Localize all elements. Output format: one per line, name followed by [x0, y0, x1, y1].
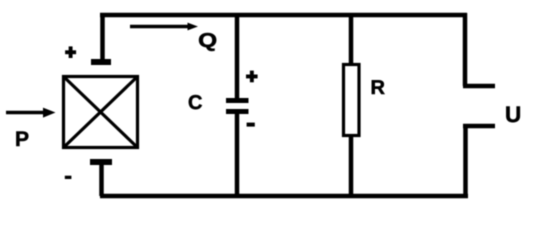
- label + source positive: [65, 46, 76, 58]
- wire bottom horizontal: [100, 194, 468, 199]
- label + capacitor positive: [246, 71, 258, 83]
- svg-text:P: P: [15, 128, 29, 151]
- terminal top of output U: [463, 84, 495, 89]
- terminal bottom of output U: [463, 124, 495, 129]
- capacitor C plates: [226, 101, 249, 112]
- wire right top vertical: [463, 13, 468, 86]
- source X1 crossed-box transducer: [64, 77, 138, 148]
- terminal bar bottom of source: [90, 159, 112, 165]
- label U: [505, 102, 521, 127]
- resistor R body: [344, 65, 360, 136]
- svg-text:U: U: [505, 102, 521, 127]
- wire resistor branch upper: [349, 15, 354, 65]
- label R: [371, 77, 386, 99]
- label Q: [198, 30, 217, 52]
- label C: [188, 92, 202, 114]
- terminal bar top of source: [91, 59, 111, 65]
- arrow P input: [6, 108, 56, 118]
- wire resistor branch lower: [349, 136, 354, 196]
- svg-text:R: R: [371, 77, 386, 99]
- wire right bottom vertical: [463, 126, 468, 196]
- svg-text:Q: Q: [198, 30, 217, 52]
- wire capacitor branch upper: [235, 15, 240, 98]
- wire capacitor branch lower: [235, 114, 240, 196]
- wire top horizontal: [100, 13, 467, 18]
- svg-text:C: C: [188, 92, 202, 114]
- arrow Q charge flow: [130, 23, 198, 31]
- wire left bottom vertical: [99, 162, 104, 196]
- label - capacitor negative: [247, 123, 255, 127]
- wire left top vertical: [100, 13, 105, 62]
- label - source negative: [65, 176, 72, 179]
- label P: [15, 128, 29, 151]
